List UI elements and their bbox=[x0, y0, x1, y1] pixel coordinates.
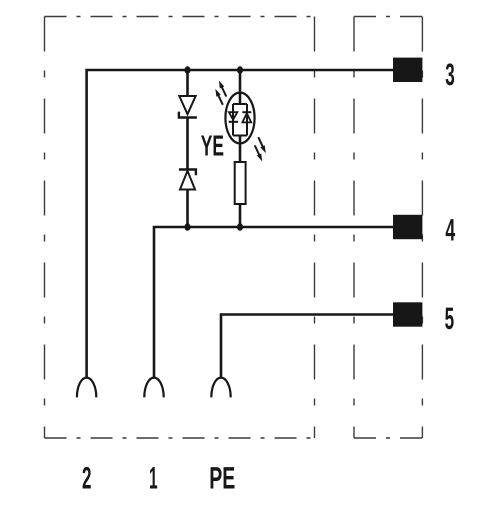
svg-text:4: 4 bbox=[445, 213, 455, 248]
label pin 3 bbox=[445, 57, 454, 92]
LED inner right rail bbox=[246, 104, 248, 136]
top edge bbox=[45, 16, 315, 18]
right edge bbox=[421, 17, 423, 439]
right edge bbox=[314, 17, 316, 439]
contact PE arc bbox=[211, 378, 230, 398]
junction node on wire4 at LED branch bbox=[237, 223, 243, 231]
LED inner left rail bbox=[232, 104, 234, 136]
svg-text:1: 1 bbox=[149, 460, 158, 495]
left edge bbox=[353, 17, 355, 439]
wire LED branch upper bbox=[239, 70, 242, 104]
bottom edge bbox=[45, 437, 315, 439]
label pin 5 bbox=[445, 301, 454, 336]
top edge bbox=[354, 16, 422, 18]
terminal 5 bbox=[393, 302, 422, 326]
LED lamp circle bbox=[225, 93, 254, 144]
label contact PE bbox=[209, 460, 235, 495]
light rays lower-right bbox=[256, 136, 268, 154]
wire zener branch middle bbox=[186, 118, 189, 170]
svg-text:YE: YE bbox=[201, 131, 224, 163]
zener diode V1 (cathode down) bbox=[179, 96, 197, 118]
label pin 4 bbox=[445, 213, 455, 248]
resistor R1 bbox=[235, 162, 246, 204]
left edge bbox=[44, 17, 46, 439]
svg-text:5: 5 bbox=[445, 301, 454, 336]
LED inner bridge top bar bbox=[233, 103, 247, 105]
terminal strip dash-dot box bbox=[354, 17, 422, 439]
wire zener branch lower bbox=[186, 190, 189, 228]
contact 1 arc bbox=[144, 378, 163, 398]
terminal 3 bbox=[393, 58, 422, 82]
wire zener branch upper bbox=[186, 70, 189, 96]
junction node on wire4 at zener branch bbox=[184, 223, 190, 231]
LED chip right diode (up) bbox=[242, 112, 251, 122]
enclosure dash-dot box (connector housing) bbox=[45, 17, 315, 439]
svg-text:2: 2 bbox=[82, 460, 91, 495]
bottom edge bbox=[354, 437, 422, 439]
contact 2 arc bbox=[77, 378, 96, 398]
junction node on wire3 at zener branch bbox=[184, 66, 190, 74]
label contact 2 bbox=[82, 460, 91, 495]
label YE bbox=[201, 131, 224, 163]
svg-text:PE: PE bbox=[209, 460, 235, 495]
LED chip left diode (down) bbox=[229, 112, 238, 122]
zener diode V2 (cathode up) bbox=[179, 170, 196, 190]
wire pin4 to contact 1 bbox=[154, 227, 395, 378]
light rays upper-left bbox=[217, 80, 229, 98]
wire pin5 to contact PE bbox=[221, 315, 395, 378]
LED inner bridge bottom bar bbox=[233, 135, 247, 137]
junction node on wire3 at LED branch bbox=[237, 66, 243, 74]
label contact 1 bbox=[149, 460, 158, 495]
wire pin3 to contact 2 bbox=[87, 70, 395, 378]
terminal 4 bbox=[393, 215, 422, 239]
wire LED branch to resistor bbox=[239, 136, 242, 163]
svg-text:3: 3 bbox=[445, 57, 454, 92]
wire resistor to node bbox=[239, 204, 242, 227]
